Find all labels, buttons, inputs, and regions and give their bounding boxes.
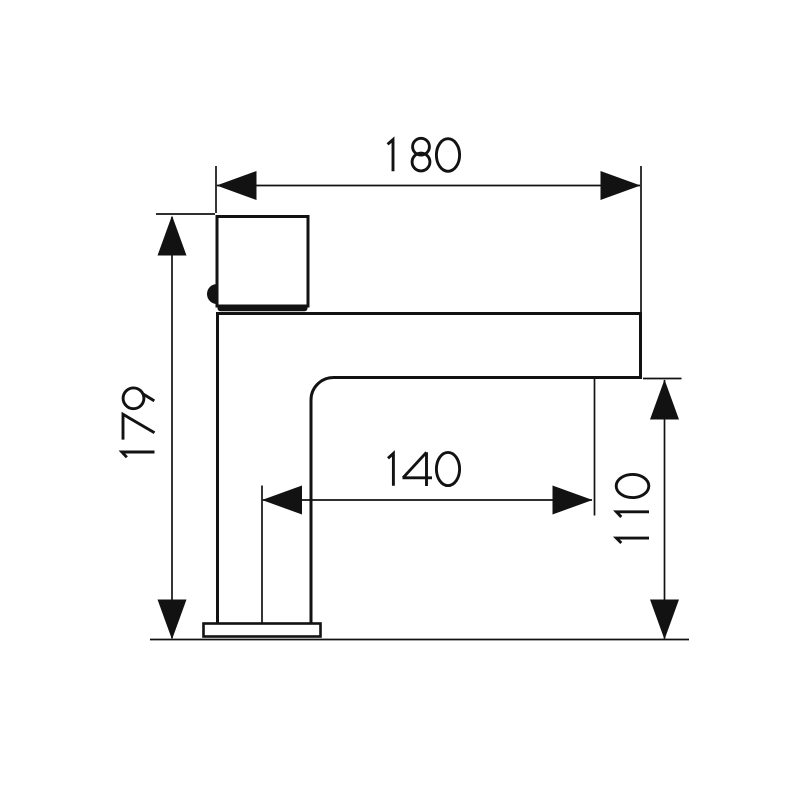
dim 179 text (rotated): digit 9	[123, 388, 144, 409]
dim 140 text: digit 0	[436, 452, 459, 485]
dim 180 extension line right	[640, 166, 642, 312]
dim 180 dimension line	[217, 185, 640, 187]
dim 140 dimension line	[263, 499, 592, 501]
dim 180 arrow left	[217, 171, 257, 200]
dim 179 arrow bottom	[158, 600, 187, 640]
dim 180 text: digit 8	[413, 138, 430, 155]
handle knob dot	[207, 284, 217, 304]
dim 140 text: digit 1	[388, 453, 393, 485]
dim 179 text (rotated): digit 1	[122, 388, 155, 457]
dim 180 text: digit 1	[388, 140, 393, 172]
base plate	[204, 624, 321, 637]
dim 140 arrow left	[262, 486, 302, 515]
dim 180 text: digit 0	[436, 139, 459, 172]
dim 179 arrow top	[158, 216, 187, 256]
dim 140 arrow right	[553, 486, 593, 515]
dim 110 text (rotated): digit 1 second	[616, 512, 649, 517]
dim 140 extension line right	[594, 379, 596, 516]
dim 180 arrow right	[601, 171, 641, 200]
spout right edge	[639, 312, 642, 378]
dim 140 text: digit 4	[403, 452, 433, 486]
dim 180 extension line left	[215, 166, 217, 213]
dim 179 text (rotated): digit 7	[123, 414, 155, 439]
dim 179 dimension line	[171, 217, 173, 638]
body left edge	[216, 312, 219, 623]
faucet handle (mixer lever body)	[217, 217, 308, 307]
baseline	[150, 639, 689, 641]
dim 140 extension line left	[261, 486, 263, 624]
dim 110 arrow bottom	[650, 600, 679, 640]
dim 110 text (rotated): digit 0	[616, 474, 649, 497]
spout underside with fillet and body right edge	[311, 378, 642, 624]
dim 110 arrow top	[650, 380, 679, 420]
dim 110 extension line top	[643, 378, 682, 380]
handle collar	[218, 305, 308, 311]
dim 110 text (rotated): digit 1	[616, 474, 649, 543]
dim 110 dimension line	[664, 380, 666, 639]
dim 179 extension line top	[156, 213, 215, 215]
spout top edge	[216, 312, 642, 315]
